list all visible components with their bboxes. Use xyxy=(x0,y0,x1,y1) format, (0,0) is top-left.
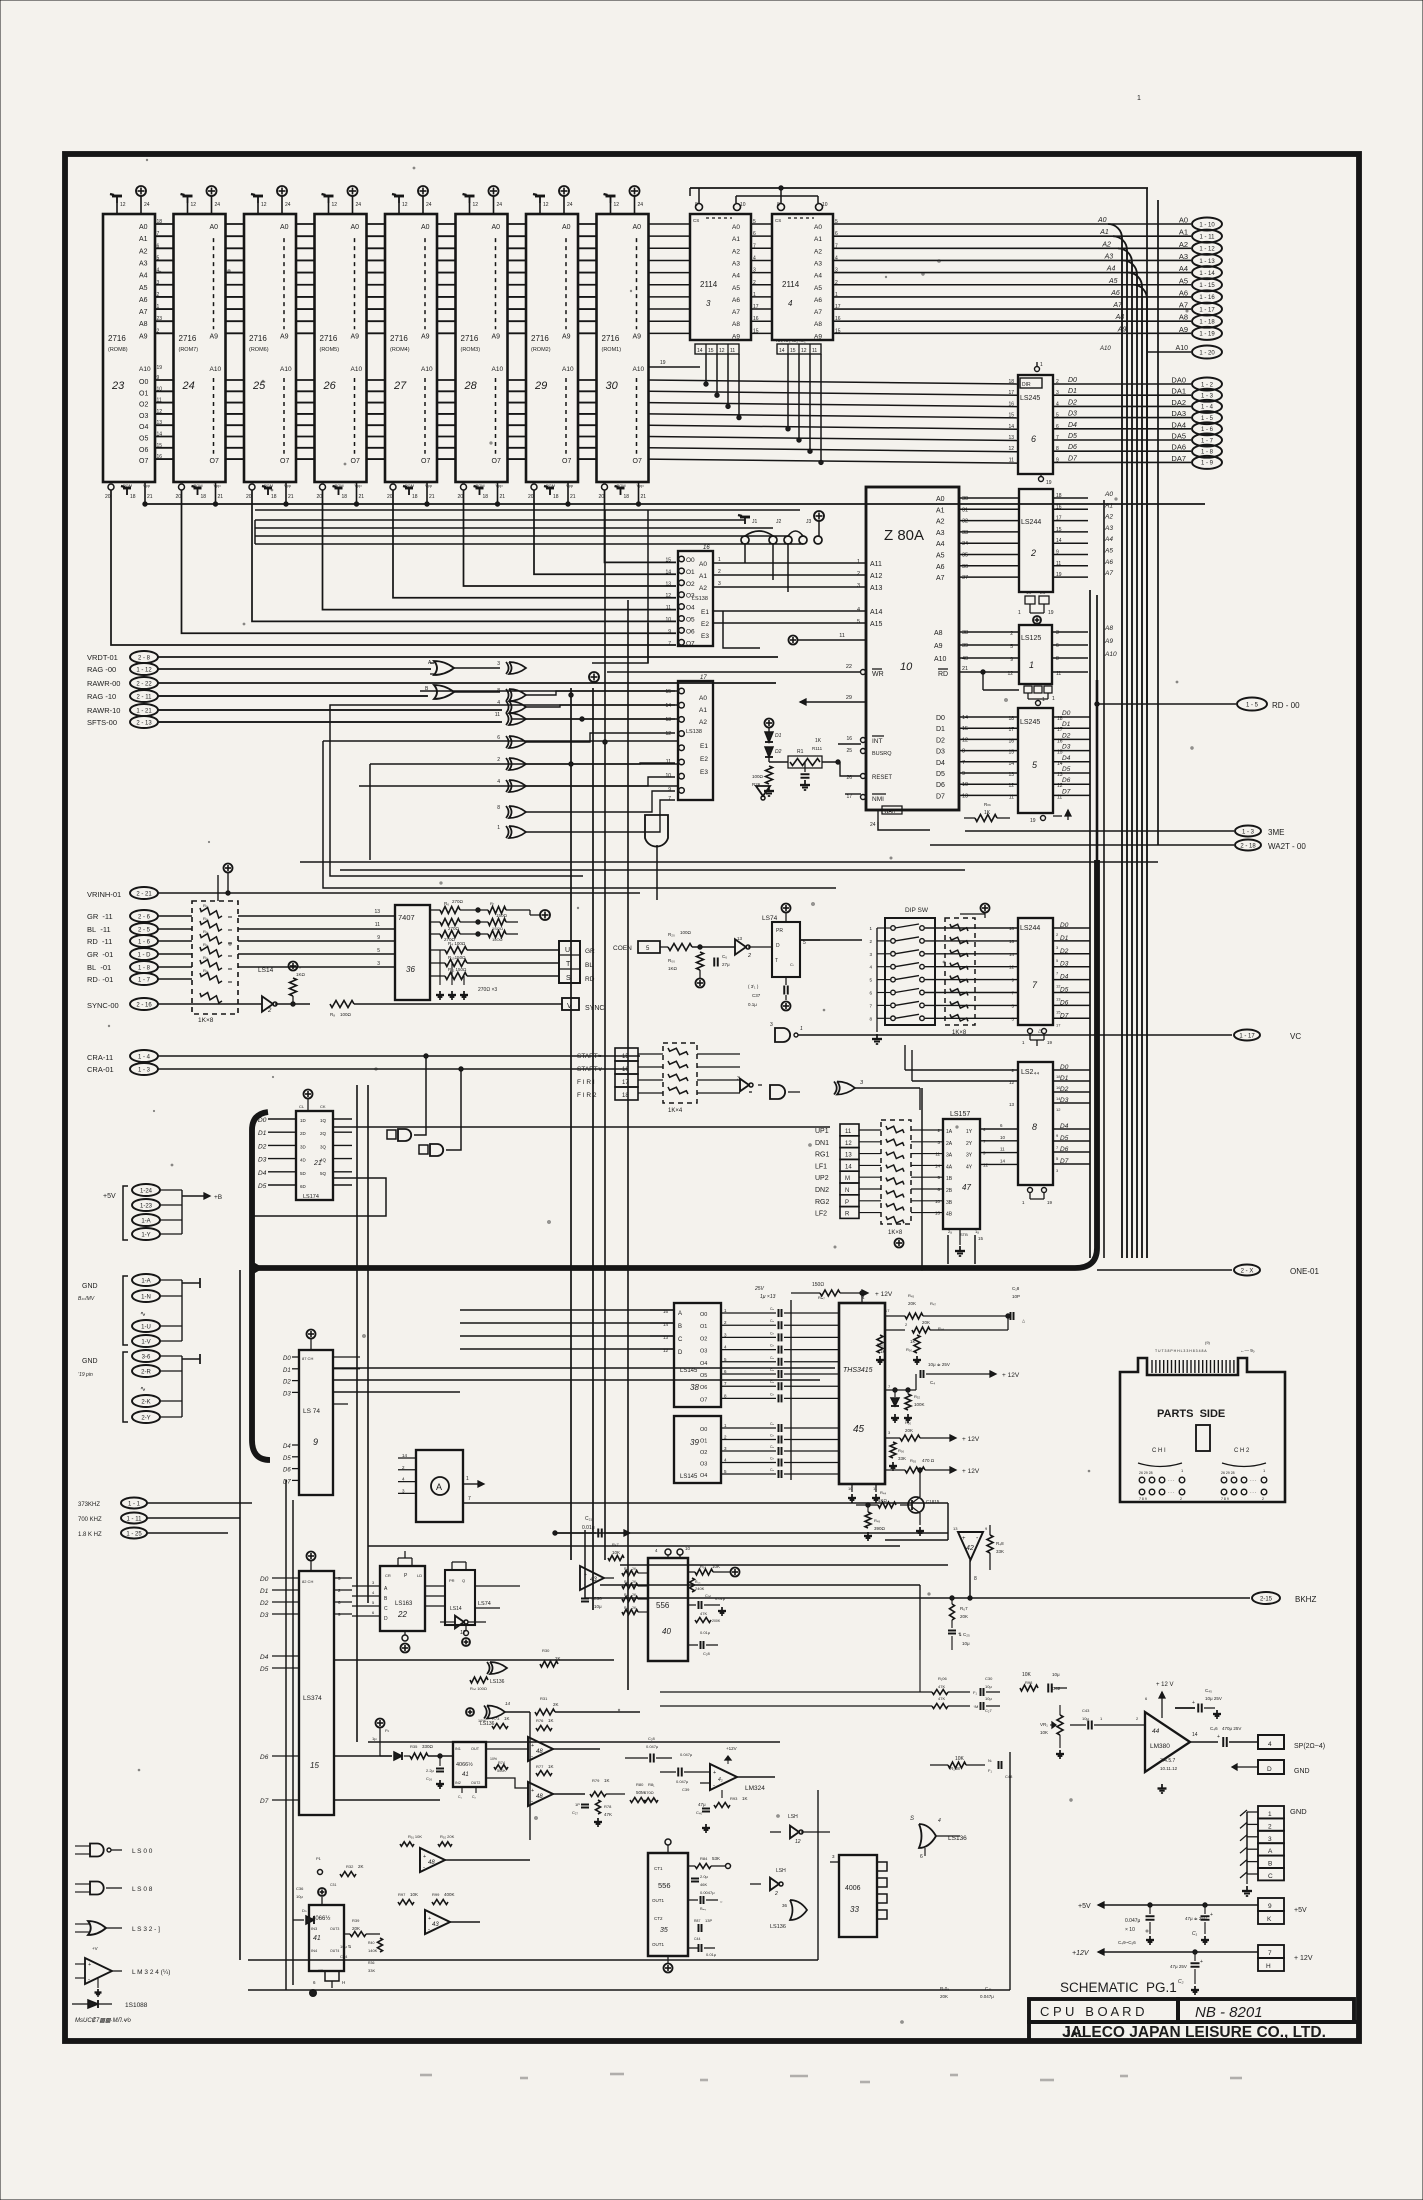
svg-text:Vpp: Vpp xyxy=(355,483,363,488)
svg-text:(ROM3): (ROM3) xyxy=(461,347,481,353)
connector oval DA3 xyxy=(1192,411,1222,424)
svg-text:Rₙ: Rₙ xyxy=(624,1567,629,1571)
wire LS245-5 D0 xyxy=(1053,716,1090,718)
svg-text:O6: O6 xyxy=(139,447,148,454)
svg-text:1 - 5: 1 - 5 xyxy=(1201,416,1214,422)
wire LS244-7 D3 xyxy=(1053,966,1090,968)
svg-text:21: 21 xyxy=(218,494,224,500)
wire ROM3 CS select xyxy=(464,490,677,586)
svg-text:A0: A0 xyxy=(1179,216,1188,225)
svg-text:1: 1 xyxy=(800,1026,803,1032)
svg-text:PGM: PGM xyxy=(617,483,626,488)
svg-text:23: 23 xyxy=(111,380,125,392)
svg-text:6: 6 xyxy=(497,735,500,741)
svg-text:R₀₀: R₀₀ xyxy=(668,958,675,963)
svg-text:20: 20 xyxy=(246,494,252,500)
svg-text:A9: A9 xyxy=(280,333,289,340)
svg-text:6: 6 xyxy=(920,1854,923,1860)
svg-text:1 - 17: 1 - 17 xyxy=(1199,307,1215,313)
svg-text:LD: LD xyxy=(417,1573,422,1578)
svg-text:DA6: DA6 xyxy=(1171,443,1186,452)
svg-text:17: 17 xyxy=(1008,390,1014,396)
svg-text:WA2T - 00: WA2T - 00 xyxy=(1268,842,1306,851)
svg-text:2716: 2716 xyxy=(390,334,408,343)
svg-text:1K: 1K xyxy=(604,1778,610,1783)
ground hatching xyxy=(1240,1810,1247,1816)
svg-text:CS: CS xyxy=(775,218,781,223)
svg-text:8: 8 xyxy=(497,805,500,811)
svg-text:O7: O7 xyxy=(686,640,695,647)
svg-text:2K: 2K xyxy=(632,1580,637,1584)
svg-text:24: 24 xyxy=(426,202,432,208)
svg-text:10μ: 10μ xyxy=(296,1894,303,1899)
svg-text:17: 17 xyxy=(846,794,852,800)
svg-text:LS136: LS136 xyxy=(490,1679,505,1685)
svg-text:D2: D2 xyxy=(1062,732,1071,739)
svg-text:3: 3 xyxy=(770,1022,773,1028)
IC LS244 U8 xyxy=(1018,1062,1053,1185)
svg-text:A0: A0 xyxy=(699,695,707,702)
svg-text:R98: R98 xyxy=(1025,1680,1033,1685)
svg-text:18: 18 xyxy=(271,494,277,500)
wire Z80 D1 xyxy=(959,727,1018,729)
svg-text:LS245: LS245 xyxy=(1020,395,1040,402)
capacitor C28 xyxy=(700,1641,702,1649)
svg-text:LF1: LF1 xyxy=(815,1163,827,1170)
svg-text:R80: R80 xyxy=(636,1782,644,1787)
svg-text:DA2: DA2 xyxy=(1171,398,1186,407)
connector oval A9 xyxy=(1192,327,1222,340)
wire 2114 CS top xyxy=(690,187,1148,189)
gate XOR LS136 c xyxy=(790,1900,807,1920)
svg-text:10μ: 10μ xyxy=(962,1641,970,1646)
svg-text:27μ: 27μ xyxy=(722,962,730,967)
wire Z80 D4 xyxy=(959,761,1018,763)
svg-text:+5V: +5V xyxy=(103,1193,116,1200)
svg-text:A6: A6 xyxy=(732,297,740,304)
svg-text:∿: ∿ xyxy=(140,1311,146,1318)
svg-text:2716: 2716 xyxy=(602,334,620,343)
svg-text:R97: R97 xyxy=(398,1892,406,1897)
IC LS74 U9 xyxy=(299,1350,333,1495)
resistor R10 150ohm xyxy=(430,962,445,964)
svg-text:O0: O0 xyxy=(700,1312,707,1318)
svg-text:SFTS-00: SFTS-00 xyxy=(87,718,117,727)
svg-text:2Q: 2Q xyxy=(320,1131,327,1136)
svg-text:R84: R84 xyxy=(700,1856,708,1861)
IC 7407 U36 xyxy=(395,905,430,1000)
svg-text:C₁8: C₁8 xyxy=(1012,1286,1020,1291)
svg-text:BUSRQ: BUSRQ xyxy=(872,751,892,757)
svg-text:A5: A5 xyxy=(732,285,740,292)
svg-text:1D: 1D xyxy=(300,1118,307,1123)
svg-text:20K: 20K xyxy=(905,1428,913,1433)
svg-text:9: 9 xyxy=(377,935,380,941)
svg-text:C₂₆: C₂₆ xyxy=(426,1776,432,1781)
svg-text:D6: D6 xyxy=(1060,1146,1069,1153)
svg-text:2 - 21: 2 - 21 xyxy=(136,891,152,897)
svg-text:+5V: +5V xyxy=(1294,1907,1307,1914)
connector oval DA7 xyxy=(1192,456,1222,469)
svg-text:O7: O7 xyxy=(210,458,219,465)
svg-text:1SOΩ: 1SOΩ xyxy=(492,926,503,931)
wire LS244 out A6 xyxy=(1053,565,1088,567)
svg-text:RAWR-10: RAWR-10 xyxy=(87,706,120,715)
svg-text:14: 14 xyxy=(1000,1158,1006,1163)
svg-text:2 - X: 2 - X xyxy=(1241,1268,1254,1274)
svg-text:3Q: 3Q xyxy=(320,1144,327,1149)
svg-text:390Ω: 390Ω xyxy=(874,1526,886,1531)
wire Z80 A3 to LS244 xyxy=(959,531,1019,533)
svg-text:D3: D3 xyxy=(1062,744,1071,751)
svg-text:12: 12 xyxy=(473,202,479,208)
svg-text:21: 21 xyxy=(570,494,576,500)
wire LS174 D5 in xyxy=(268,1184,296,1186)
svg-text:1P: 1P xyxy=(575,1802,580,1807)
svg-text:10μ ⇅: 10μ ⇅ xyxy=(340,1944,352,1949)
svg-text:4: 4 xyxy=(497,700,500,706)
svg-text:1: 1 xyxy=(1018,610,1021,616)
svg-text:12: 12 xyxy=(665,731,671,737)
svg-text:24: 24 xyxy=(144,202,150,208)
svg-text:A6: A6 xyxy=(1104,559,1113,566)
svg-text:6: 6 xyxy=(1031,434,1036,444)
svg-text:18: 18 xyxy=(1008,716,1014,722)
svg-text:1 - 8: 1 - 8 xyxy=(1201,450,1214,456)
svg-text:1: 1 xyxy=(497,825,500,831)
svg-text:9: 9 xyxy=(668,787,671,793)
wire ROM1 CS select xyxy=(605,490,677,562)
wire LS244-8 D7 xyxy=(1053,1163,1090,1165)
svg-text:7: 7 xyxy=(468,1496,471,1502)
svg-text:START≈: START≈ xyxy=(577,1053,602,1060)
svg-text:O2: O2 xyxy=(700,1336,707,1342)
gate LS14 coen xyxy=(735,939,746,954)
svg-text:37: 37 xyxy=(962,575,968,581)
svg-text:A0: A0 xyxy=(421,224,430,231)
svg-text:16: 16 xyxy=(703,545,710,551)
gate AND start xyxy=(770,1085,785,1099)
svg-text:1 - D: 1 - D xyxy=(137,952,151,958)
capacitor C6 27u xyxy=(713,958,715,967)
svg-text:E3: E3 xyxy=(701,633,709,640)
svg-text:41: 41 xyxy=(313,1935,321,1942)
wire LS244-7 D5 xyxy=(1053,992,1090,994)
wire D6 to DA oval xyxy=(1053,450,1191,452)
wire Z80 A8 to LS125 xyxy=(959,631,1019,633)
svg-text:F I R 2: F I R 2 xyxy=(577,1092,597,1099)
svg-text:GR -11: GR -11 xyxy=(87,912,113,921)
svg-text:7: 7 xyxy=(668,641,671,647)
svg-text:A5: A5 xyxy=(814,285,822,292)
svg-text:0.047μ: 0.047μ xyxy=(1125,1918,1141,1924)
svg-text:A1: A1 xyxy=(1104,502,1113,509)
svg-text:O4: O4 xyxy=(686,605,695,612)
svg-text:0.01μ: 0.01μ xyxy=(700,1630,711,1635)
wire D7 to DA oval xyxy=(1053,461,1191,463)
svg-text:IN1: IN1 xyxy=(455,1747,461,1751)
svg-text:DN1: DN1 xyxy=(815,1140,829,1147)
svg-text:OUT: OUT xyxy=(471,1747,480,1751)
svg-text:J2: J2 xyxy=(776,519,782,525)
resistor network 1Kx8 joy xyxy=(881,1120,911,1224)
svg-text:ONE-01: ONE-01 xyxy=(1290,1267,1319,1276)
svg-text:+ 12V: + 12V xyxy=(1002,1372,1020,1379)
svg-text:10K: 10K xyxy=(1040,1730,1048,1735)
svg-text:O4: O4 xyxy=(139,424,148,431)
svg-text:R73: R73 xyxy=(492,1716,500,1721)
connector oval A10 xyxy=(1148,351,1191,353)
svg-text:Rₘ₇: Rₘ₇ xyxy=(818,1295,825,1300)
svg-text:D2: D2 xyxy=(258,1143,267,1150)
svg-text:LF2: LF2 xyxy=(815,1211,827,1218)
svg-text:A9: A9 xyxy=(633,333,642,340)
svg-text:RD: RD xyxy=(585,976,595,983)
svg-text:LM324: LM324 xyxy=(745,1785,765,1792)
svg-text:373KHZ: 373KHZ xyxy=(78,1502,100,1508)
svg-text:CR: CR xyxy=(385,1573,391,1578)
svg-text:A1: A1 xyxy=(814,236,822,243)
svg-text:10K: 10K xyxy=(1022,1672,1032,1678)
svg-text:A0: A0 xyxy=(732,224,740,231)
svg-text:A10: A10 xyxy=(351,366,363,373)
svg-text:1S1088: 1S1088 xyxy=(125,2002,148,2009)
opamp U48c xyxy=(420,1848,445,1872)
title block row1 CPU BOARD xyxy=(1029,1999,1178,2022)
svg-text:14: 14 xyxy=(845,1164,852,1170)
svg-text:0.047μ: 0.047μ xyxy=(646,1744,659,1749)
svg-text:18: 18 xyxy=(553,494,559,500)
svg-text:A7: A7 xyxy=(139,309,148,316)
svg-text:1 - 16: 1 - 16 xyxy=(1199,295,1215,301)
svg-text:M: M xyxy=(845,1176,850,1182)
resistor R60-R63 2K ladder xyxy=(622,1571,638,1576)
svg-text:47K: 47K xyxy=(604,1812,612,1817)
svg-text:30: 30 xyxy=(962,496,968,502)
svg-text:2: 2 xyxy=(1262,1497,1264,1501)
svg-text:B: B xyxy=(678,1324,682,1330)
svg-text:F I R I: F I R I xyxy=(577,1079,595,1086)
svg-text:21: 21 xyxy=(359,494,365,500)
svg-text:2K: 2K xyxy=(358,1864,364,1869)
gate inverter start xyxy=(740,1079,749,1092)
svg-text:47K: 47K xyxy=(700,1611,707,1616)
wire common pin21 Vpp xyxy=(143,503,1205,505)
svg-text:D3: D3 xyxy=(258,1157,267,1164)
IC LS374 U15 xyxy=(299,1571,334,1815)
svg-text:R35: R35 xyxy=(410,1744,418,1749)
svg-text:14: 14 xyxy=(1008,424,1014,430)
svg-text:4D: 4D xyxy=(300,1158,307,1163)
wire LS74-9 D3 in xyxy=(292,1391,299,1393)
wire LS244-8 D5 xyxy=(1053,1140,1090,1142)
svg-text:16: 16 xyxy=(622,1067,629,1073)
svg-text:11: 11 xyxy=(666,605,671,611)
svg-text:A0: A0 xyxy=(562,224,571,231)
svg-text:10: 10 xyxy=(665,773,671,779)
svg-text:15: 15 xyxy=(1008,413,1014,419)
svg-text:∿: ∿ xyxy=(140,1386,146,1393)
svg-text:1: 1 xyxy=(1040,362,1043,368)
svg-text:D4: D4 xyxy=(1060,1123,1069,1130)
svg-text:20: 20 xyxy=(458,494,464,500)
svg-text:24: 24 xyxy=(870,822,876,828)
svg-text:12: 12 xyxy=(332,202,338,208)
svg-text:A6: A6 xyxy=(936,564,945,571)
svg-text:R₂₀: R₂₀ xyxy=(668,932,675,937)
wire Z80 A7 to LS244 xyxy=(959,576,1019,578)
svg-text:48: 48 xyxy=(428,1860,435,1866)
svg-text:1: 1 xyxy=(1052,696,1055,702)
svg-text:12: 12 xyxy=(962,737,968,743)
resistor R11 100ohm xyxy=(430,975,445,977)
svg-text:1: 1 xyxy=(718,557,721,563)
wire D0 to DA oval xyxy=(1053,383,1191,385)
svg-text:47μ 25V: 47μ 25V xyxy=(1170,1964,1187,1969)
svg-text:1 - 14: 1 - 14 xyxy=(1199,271,1215,277)
svg-text:N: N xyxy=(845,1188,849,1194)
svg-text:1R: 1R xyxy=(318,1968,323,1973)
svg-text:OUT1: OUT1 xyxy=(652,1898,664,1903)
svg-text:1 - 3: 1 - 3 xyxy=(1201,394,1214,400)
svg-text:O4: O4 xyxy=(700,1361,707,1367)
connector oval A7 xyxy=(1192,303,1222,316)
gate XOR column LS136 xyxy=(509,662,526,674)
svg-text:GND: GND xyxy=(82,1358,98,1365)
svg-text:A9: A9 xyxy=(562,333,571,340)
svg-text:1 - 12: 1 - 12 xyxy=(1199,247,1215,253)
svg-text:2114: 2114 xyxy=(782,280,800,289)
wire LS244-8 left feeds xyxy=(905,1069,1018,1071)
wire LS244 out A7 xyxy=(1053,576,1088,578)
gate NAND vc xyxy=(775,1028,790,1042)
svg-text:D2: D2 xyxy=(1068,399,1077,406)
svg-text:Cₙ: Cₙ xyxy=(770,1457,775,1461)
svg-text:INT: INT xyxy=(872,738,883,745)
svg-text:19: 19 xyxy=(1046,480,1052,486)
svg-text:C48: C48 xyxy=(1005,1774,1013,1779)
svg-text:+: + xyxy=(962,1536,966,1542)
svg-text:C₂8: C₂8 xyxy=(703,1651,710,1656)
svg-text:J3: J3 xyxy=(806,519,812,525)
svg-text:16: 16 xyxy=(1009,939,1015,944)
RGB output box UTS xyxy=(559,941,580,983)
svg-text:O0: O0 xyxy=(686,557,695,564)
svg-text:700 KHZ: 700 KHZ xyxy=(78,1517,102,1523)
svg-text:D: D xyxy=(776,943,780,949)
svg-text:RD· -01: RD· -01 xyxy=(87,975,113,984)
svg-text:A3: A3 xyxy=(139,260,148,267)
svg-text:D5: D5 xyxy=(258,1183,267,1190)
wire LS174 D3 in xyxy=(268,1158,296,1160)
svg-text:O7: O7 xyxy=(492,458,501,465)
IC THS3415 U45 xyxy=(839,1303,885,1484)
svg-text:7: 7 xyxy=(1268,1950,1272,1957)
svg-text:A0: A0 xyxy=(936,496,945,503)
wire LS244-7 D4 xyxy=(1053,979,1090,981)
svg-text:2K: 2K xyxy=(632,1593,637,1597)
svg-text:2716: 2716 xyxy=(320,334,338,343)
svg-text:LS244: LS244 xyxy=(1021,519,1041,526)
svg-text:IN3: IN3 xyxy=(311,1926,318,1931)
svg-text:LS2₄₄: LS2₄₄ xyxy=(1021,1069,1039,1076)
wire LS244-8 D2 xyxy=(1053,1091,1090,1093)
IC LS244 U2 xyxy=(1019,489,1053,592)
wire LS245-5 D1 xyxy=(1053,727,1090,729)
svg-text:T: T xyxy=(775,958,778,964)
svg-text:46K: 46K xyxy=(700,1882,707,1887)
IC LS245 U6 xyxy=(1018,375,1053,474)
svg-text:26 29 28: 26 29 28 xyxy=(1221,1471,1235,1475)
wire D4 to DA oval xyxy=(1053,428,1191,430)
svg-text:T U T 3 8 P H H L 3 3 H​​ 8 3: T U T 3 8 P H H L 3 3 H​​ 8 3 4 8 A xyxy=(1155,1349,1207,1353)
svg-text:1 - 21: 1 - 21 xyxy=(136,708,152,714)
svg-text:H: H xyxy=(1266,1963,1271,1970)
svg-text:2-15: 2-15 xyxy=(1260,1596,1273,1602)
svg-text:2716: 2716 xyxy=(249,334,267,343)
svg-text:D3: D3 xyxy=(936,749,945,756)
svg-text:D0: D0 xyxy=(1060,1064,1069,1071)
svg-text:VC: VC xyxy=(1290,1032,1301,1041)
svg-text:O0: O0 xyxy=(139,379,148,386)
svg-text:400K: 400K xyxy=(444,1892,455,1897)
IC LS138 U16 xyxy=(678,551,713,646)
wire LS244-7 D7 xyxy=(1053,1017,1090,1019)
svg-text:13: 13 xyxy=(1008,435,1014,441)
svg-text:SYNC-00: SYNC-00 xyxy=(87,1001,119,1010)
svg-text:LM380: LM380 xyxy=(1150,1743,1170,1750)
svg-text:Rₙ: Rₙ xyxy=(624,1606,629,1610)
svg-text:1K: 1K xyxy=(742,1796,748,1801)
svg-text:12: 12 xyxy=(795,1839,801,1845)
svg-text:22: 22 xyxy=(846,664,852,670)
svg-text:10μ ≑ 25V: 10μ ≑ 25V xyxy=(928,1362,950,1367)
svg-text:CK: CK xyxy=(320,1104,326,1109)
svg-text:A8: A8 xyxy=(934,630,943,637)
wire LS125 out A10 xyxy=(1052,657,1088,659)
gate XOR LS136 b xyxy=(490,1662,507,1674)
svg-text:-: - xyxy=(713,1783,715,1789)
svg-text:1 - 15: 1 - 15 xyxy=(1199,283,1215,289)
svg-text:24: 24 xyxy=(497,202,503,208)
svg-text:15: 15 xyxy=(1008,750,1014,756)
svg-text:-: - xyxy=(428,1927,430,1933)
svg-text:2716: 2716 xyxy=(108,334,126,343)
svg-text:A6: A6 xyxy=(1179,288,1188,297)
svg-text:2B: 2B xyxy=(946,1188,953,1194)
svg-text:A9: A9 xyxy=(210,333,219,340)
svg-text:D7: D7 xyxy=(936,793,945,800)
svg-text:18: 18 xyxy=(483,494,489,500)
svg-text:17: 17 xyxy=(622,1080,629,1086)
svg-text:21: 21 xyxy=(962,666,968,672)
svg-text:13: 13 xyxy=(374,909,380,915)
svg-text:13: 13 xyxy=(845,1153,852,1159)
svg-text:2: 2 xyxy=(857,571,860,577)
svg-text:0.0047μ: 0.0047μ xyxy=(700,1890,715,1895)
svg-text:CT2: CT2 xyxy=(654,1916,663,1921)
node dot xyxy=(310,1990,317,1997)
svg-text:19: 19 xyxy=(157,365,163,371)
svg-text:A9: A9 xyxy=(351,333,360,340)
svg-text:DN2: DN2 xyxy=(815,1187,829,1194)
svg-text:4B: 4B xyxy=(946,1212,953,1218)
svg-text:17: 17 xyxy=(700,675,707,681)
svg-text:87 CH: 87 CH xyxy=(302,1356,313,1361)
svg-text:A9: A9 xyxy=(421,333,430,340)
svg-text:20K: 20K xyxy=(960,1614,968,1619)
bus wire A0-A9 to edge connector xyxy=(833,223,1191,225)
